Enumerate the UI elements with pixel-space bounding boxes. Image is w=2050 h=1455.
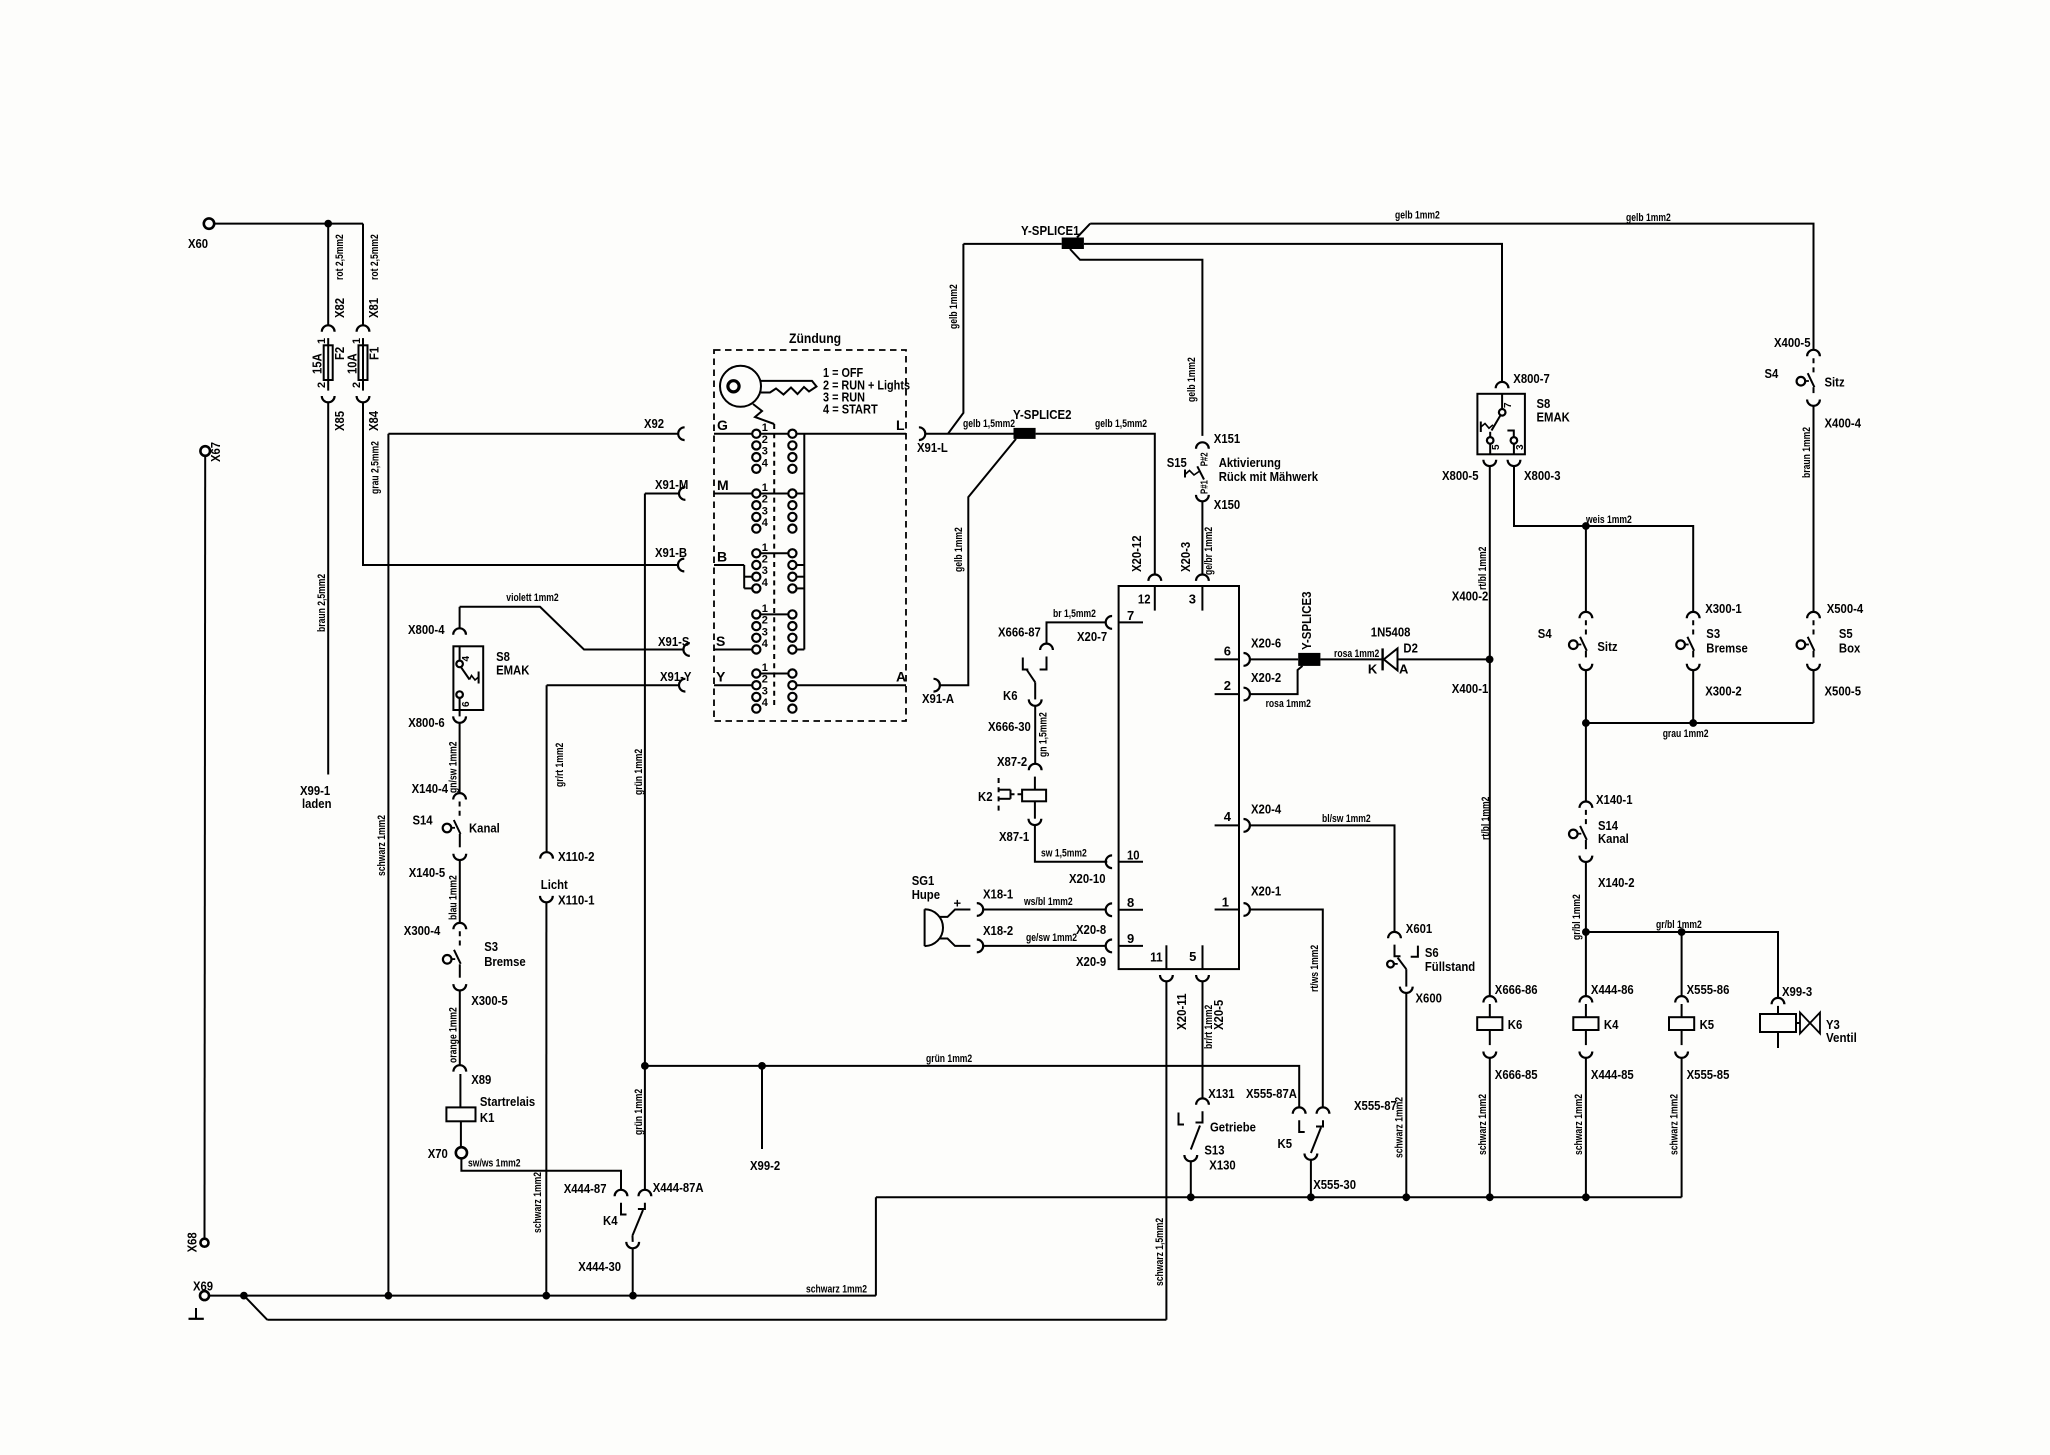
wire through fuse F1 [362,338,364,391]
svg-text:X400-5: X400-5 [1774,335,1811,350]
svg-text:bl/sw 1mm2: bl/sw 1mm2 [1322,813,1371,825]
terminal X69 [200,1291,209,1300]
svg-text:1: 1 [762,662,768,674]
relay contact K6 [1040,657,1047,670]
svg-text:X800-4: X800-4 [408,622,445,637]
wire B right stub 2 [797,564,805,566]
svg-text:gelb 1mm2: gelb 1mm2 [1186,357,1198,402]
connector X85 [322,396,335,402]
svg-text:EMAK: EMAK [1537,410,1571,425]
connector X20-8 [1106,903,1112,916]
svg-text:X60: X60 [188,236,208,251]
svg-text:K4: K4 [1604,1017,1619,1032]
svg-text:X85: X85 [332,411,347,431]
connector X444-87 [615,1190,628,1196]
junction gr/bl K4 [1582,928,1590,936]
wire grau to X140-1 [1585,723,1587,802]
svg-text:gelb 1mm2: gelb 1mm2 [1395,210,1440,222]
wire B right stub 4 [797,587,805,589]
svg-text:X555-85: X555-85 [1687,1067,1730,1082]
svg-text:S5: S5 [1839,626,1853,641]
wire coil K6 down [1489,1030,1491,1045]
svg-text:2: 2 [762,674,768,686]
relay contact K5 [1299,1120,1305,1132]
wire X130 to rail [1190,1161,1192,1197]
connector X20-9 [1106,940,1112,953]
wire coil K4 down [1585,1030,1587,1045]
svg-text:rot 2,5mm2: rot 2,5mm2 [369,234,381,280]
svg-text:2: 2 [351,382,363,388]
connector X800-5 [1483,460,1496,466]
connector X140-2 [1580,856,1593,862]
svg-text:schwarz 1mm2: schwarz 1mm2 [1669,1094,1681,1155]
svg-text:7: 7 [1127,608,1134,623]
wire S14 to X140-2 [1585,840,1587,849]
connector X91-B [678,559,684,572]
svg-text:P#1: P#1 [1200,480,1211,494]
connector X20-1 [1244,903,1250,916]
svg-text:G: G [717,417,728,433]
svg-text:gn/sw 1mm2: gn/sw 1mm2 [448,742,460,794]
relay coil K5 [1669,1017,1694,1030]
junction diode rt/bl [1486,656,1494,664]
svg-text:braun 1mm2: braun 1mm2 [1801,427,1813,478]
svg-text:12: 12 [1138,592,1151,607]
junction weis S4 [1582,522,1590,530]
wire X555-85 to rail [1681,1058,1683,1197]
svg-text:X140-2: X140-2 [1598,875,1635,890]
svg-text:X20-10: X20-10 [1069,871,1106,886]
svg-text:4: 4 [762,517,769,529]
wire X20-6 to splice [1250,658,1298,660]
svg-text:rosa 1mm2: rosa 1mm2 [1266,698,1311,710]
wire K4 to X444-30 [632,1236,634,1242]
svg-text:6: 6 [1224,644,1231,659]
relay coil K6 [1477,1017,1502,1030]
wire X300-2 down [1692,670,1694,723]
wire gr/bl down [1585,862,1587,932]
wire rail diagonal [244,1296,267,1320]
svg-text:Ventil: Ventil [1826,1030,1857,1045]
svg-text:X99-3: X99-3 [1782,984,1812,999]
svg-text:schwarz 1,5mm2: schwarz 1,5mm2 [1154,1218,1166,1286]
wire violett 1mm2 [460,607,684,650]
S8 left internals [459,646,461,660]
wire row B entry [714,564,744,566]
solenoid Y3 [1760,1014,1796,1032]
connector X140-4 [453,793,466,799]
svg-text:2: 2 [762,615,768,627]
svg-text:10A: 10A [345,353,360,374]
wire Y-SPLICE1 left [963,243,1061,245]
connector X444-87A [639,1190,652,1196]
wire X555-30 to rail [1310,1160,1312,1197]
svg-text:X500-4: X500-4 [1827,601,1864,616]
svg-text:rt/bl 1mm2: rt/bl 1mm2 [1477,547,1489,590]
ignition switch box Zündung [714,350,906,721]
connector X131 [1196,1098,1209,1104]
svg-text:4: 4 [762,457,769,469]
junction grau S4 [1582,719,1590,727]
connector X91-A [934,679,940,692]
wire gelb riser to Y-SPLICE1 [948,244,963,434]
svg-text:X500-5: X500-5 [1825,684,1862,699]
svg-text:grün 1mm2: grün 1mm2 [926,1053,972,1065]
wire X444-85 to rail [1585,1058,1587,1197]
svg-text:X666-87: X666-87 [998,625,1041,640]
wire rot 2,5mm2 to X82 [327,224,329,326]
svg-text:X400-2: X400-2 [1452,589,1489,604]
svg-text:schwarz 1mm2: schwarz 1mm2 [1573,1094,1585,1155]
svg-text:X800-3: X800-3 [1524,468,1561,483]
wire gn 1,5mm2 [1034,706,1036,764]
svg-text:4: 4 [1224,809,1232,824]
svg-text:Y: Y [716,669,726,685]
svg-text:S13: S13 [1204,1143,1224,1158]
svg-text:S3: S3 [1706,626,1720,641]
junction K4 rail [1582,1193,1590,1201]
svg-text:Zündung: Zündung [789,330,841,346]
svg-text:X666-86: X666-86 [1495,982,1538,997]
svg-text:X18-1: X18-1 [983,887,1013,902]
svg-text:S6: S6 [1425,945,1439,960]
svg-text:X300-1: X300-1 [1705,601,1742,616]
svg-text:4: 4 [762,577,769,589]
wire horn plus [939,910,970,917]
fuse F2 [324,345,333,380]
connector X87-2 [1029,764,1042,770]
connector X555-87 [1317,1107,1330,1113]
svg-text:X110-1: X110-1 [558,893,595,908]
relay coil K2 [1022,790,1046,802]
connector X400-1 [1580,664,1593,670]
connector X600 [1400,987,1413,993]
connector X666-30 [1029,699,1042,705]
connector X20-11 [1160,975,1173,981]
svg-text:X400-4: X400-4 [1825,416,1862,431]
svg-text:X800-5: X800-5 [1442,468,1479,483]
svg-text:P#2: P#2 [1200,452,1211,466]
connector X150 [1196,495,1209,501]
wire weis to X400-2 [1585,526,1587,612]
svg-text:X20-6: X20-6 [1251,636,1281,651]
svg-text:X800-7: X800-7 [1513,371,1550,386]
wire gelb to X20-12 [1036,434,1155,575]
svg-text:Licht: Licht [541,877,569,892]
wire braun 2,5mm2 to X99-1 [327,402,329,774]
svg-text:grün 1mm2: grün 1mm2 [633,749,645,795]
wire gr/rt 1mm2 [546,685,548,852]
svg-text:X67: X67 [208,442,223,462]
wire Y-SPLICE1 top diagonal [1077,224,1090,238]
splice Y-SPLICE1 [1062,238,1084,250]
switch S14 right [1585,810,1587,827]
switch S14 left [459,802,461,819]
svg-text:1: 1 [316,338,328,344]
svg-text:X601: X601 [1406,921,1432,936]
junction gruen branch [641,1062,649,1070]
svg-text:schwarz 1mm2: schwarz 1mm2 [1477,1094,1489,1155]
svg-text:1: 1 [762,422,768,434]
wire S6 to X600 [1405,969,1407,986]
connector X20-2 [1244,688,1250,701]
svg-text:gelb 1,5mm2: gelb 1,5mm2 [963,418,1015,430]
svg-text:sw 1,5mm2: sw 1,5mm2 [1041,848,1087,860]
svg-text:schwarz 1mm2: schwarz 1mm2 [376,815,388,876]
svg-text:11: 11 [1150,949,1163,964]
connector X92 [678,427,684,440]
svg-text:X20-4: X20-4 [1251,802,1282,817]
svg-text:X300-5: X300-5 [471,993,508,1008]
wire X99-2 stub [761,1066,763,1149]
horn SG1 symbol [925,909,943,946]
connector X300-1 [1687,612,1700,618]
wire X87-2 to K2 [1034,777,1036,790]
wire gruen horizontal [645,1066,1299,1108]
connector X300-4 [453,923,466,929]
svg-text:orange 1mm2: orange 1mm2 [448,1007,460,1063]
diode D2 1N5408 [1381,648,1383,670]
junction schwarz Licht line [542,1292,550,1300]
wire coil K5 down [1681,1030,1683,1045]
svg-text:grau 2,5mm2: grau 2,5mm2 [370,441,382,494]
connector X601 [1388,932,1401,938]
svg-text:X20-8: X20-8 [1076,922,1106,937]
wire X67 to X68 [204,456,207,1239]
svg-text:K4: K4 [603,1213,618,1228]
wire ge/br 1mm2 [1201,501,1203,574]
wire bl/sw 1mm2 [1250,825,1395,932]
wire row M [714,493,804,495]
svg-text:1: 1 [762,482,768,494]
junction grau S3 [1689,719,1697,727]
svg-text:gelb 1,5mm2: gelb 1,5mm2 [1095,418,1147,430]
wire grau 1mm2 bus [1586,722,1814,724]
connector X555-85 [1675,1052,1688,1058]
splice Y-SPLICE2 [1014,428,1036,439]
svg-text:K2: K2 [978,789,993,804]
svg-text:A: A [1399,661,1409,676]
wire grau 2,5mm2 to X91-B [363,402,678,565]
svg-text:4: 4 [762,638,769,650]
svg-text:schwarz 1mm2: schwarz 1mm2 [532,1172,544,1233]
wire sw/ws 1mm2 [461,1158,621,1189]
svg-text:X444-87A: X444-87A [653,1180,704,1195]
svg-text:braun 2,5mm2: braun 2,5mm2 [316,574,328,632]
svg-text:3: 3 [762,505,768,517]
wire K6 to X666-30 [1034,682,1036,699]
svg-text:X300-2: X300-2 [1705,684,1742,699]
junction gr/bl K5 [1678,928,1686,936]
svg-text:8: 8 [1127,895,1134,910]
wire to X555-86 [1681,932,1683,996]
terminal X60 [204,218,214,228]
svg-text:S4: S4 [1765,366,1779,381]
svg-text:EMAK: EMAK [496,663,530,678]
wire rail riser [875,1197,877,1295]
svg-text:2: 2 [316,382,328,388]
wire blau 1mm2 [459,860,461,923]
switch S4 mid [1585,620,1587,637]
svg-text:Getriebe: Getriebe [1210,1120,1256,1135]
svg-text:K6: K6 [1508,1017,1523,1032]
svg-text:X140-5: X140-5 [409,865,446,880]
wire X60 feed [214,223,363,225]
svg-text:rt/bl 1mm2: rt/bl 1mm2 [1480,797,1492,840]
svg-text:Bremse: Bremse [484,954,526,969]
wire lower ground rail [267,1319,1166,1321]
wire row S entry [714,649,752,651]
svg-text:X92: X92 [644,416,664,431]
svg-text:X555-30: X555-30 [1313,1177,1356,1192]
svg-text:gn 1,5mm2: gn 1,5mm2 [1038,712,1050,757]
wire B row1 bridge [761,552,789,554]
junction X444-30 line [629,1292,637,1300]
wire mid ground rail [876,1196,1682,1198]
switch S13 [1196,1111,1203,1122]
relay coil K4 [1573,1017,1598,1030]
svg-text:X300-4: X300-4 [404,923,441,938]
svg-text:X91-M: X91-M [655,477,688,492]
svg-text:X130: X130 [1209,1158,1235,1173]
svg-text:gelb 1mm2: gelb 1mm2 [1626,212,1671,224]
connector X140-1 [1580,802,1593,808]
wire schwarz S6 [1405,993,1407,1197]
svg-text:4 = START: 4 = START [823,403,878,417]
svg-text:Kanal: Kanal [469,821,500,836]
connector X91-L [919,427,925,440]
junction X555-30 rail [1307,1193,1315,1201]
junction rail to rail2 [240,1292,248,1300]
svg-text:X140-4: X140-4 [412,781,449,796]
wire to coil K6 [1489,1004,1491,1017]
connector X91-M [679,487,685,500]
connector X84 [357,396,370,402]
mechanical link dashed [773,424,775,705]
connector X444-85 [1580,1052,1593,1058]
junction K6 rail [1486,1193,1494,1201]
svg-text:K5: K5 [1700,1017,1715,1032]
svg-text:6: 6 [461,701,472,707]
svg-text:Sitz: Sitz [1597,639,1618,654]
wire X800-4 up [459,607,461,629]
ground symbol [195,1308,197,1319]
junction X99-2 [758,1062,766,1070]
svg-text:gr/bl 1mm2: gr/bl 1mm2 [1571,894,1583,940]
svg-text:br/rt 1mm2: br/rt 1mm2 [1203,1005,1215,1049]
svg-text:3: 3 [762,685,768,697]
connector X666-87 [1040,644,1053,650]
connector X151 [1196,442,1209,448]
switch S3 left [459,931,461,948]
svg-text:3: 3 [762,446,768,458]
svg-text:X151: X151 [1214,431,1240,446]
wire gn/sw 1mm2 [459,723,461,793]
connector X110-2 [540,852,553,858]
svg-text:2: 2 [762,494,768,506]
wire ge/sw 1mm2 [983,945,1105,947]
svg-text:Y-SPLICE3: Y-SPLICE3 [1299,592,1314,651]
svg-text:laden: laden [302,796,332,811]
svg-text:grau 1mm2: grau 1mm2 [1663,728,1709,740]
connector X800-4 [453,628,466,634]
connector X300-2 [1687,664,1700,670]
svg-text:X91-Y: X91-Y [660,669,692,684]
svg-text:1: 1 [762,603,768,615]
wire X91-Y harness [547,684,679,686]
switch S5 [1813,620,1815,637]
svg-text:rt/ws 1mm2: rt/ws 1mm2 [1309,945,1321,992]
svg-text:X444-85: X444-85 [1591,1067,1634,1082]
wire contact bus [803,434,805,650]
fuse F1 [359,345,368,380]
relay contact K4 [621,1203,627,1215]
svg-text:S14: S14 [413,813,434,828]
connector X555-30 [1305,1154,1318,1160]
svg-text:X600: X600 [1416,991,1442,1006]
wire br 1,5mm2 [1047,622,1106,643]
wire ws/bl 1mm2 [983,909,1105,911]
svg-text:5: 5 [1189,949,1196,964]
svg-text:X99-2: X99-2 [750,1158,780,1173]
svg-text:7: 7 [1503,402,1514,408]
switch S15 [1197,466,1204,479]
connector X82 [322,325,335,331]
wire S3 to X300-5 [459,964,461,977]
svg-text:X20-11: X20-11 [1174,994,1189,1031]
relay coil K1 [446,1107,475,1121]
svg-text:3: 3 [1189,592,1196,607]
connector block X20 [1119,586,1239,969]
connector X800-6 [453,716,466,722]
svg-text:violett 1mm2: violett 1mm2 [506,592,558,604]
svg-text:X400-1: X400-1 [1452,681,1489,696]
wire B left link [743,565,745,588]
svg-text:gr/rt 1mm2: gr/rt 1mm2 [554,743,566,787]
svg-text:X150: X150 [1214,497,1240,512]
wire row G-L [714,433,906,435]
connector X18-1 [977,903,983,916]
connector X800-3 [1508,460,1521,466]
wire through fuse F2 [327,338,329,391]
svg-text:3: 3 [1515,444,1526,450]
svg-text:Rück mit Mähwerk: Rück mit Mähwerk [1219,469,1319,484]
svg-text:Sitz: Sitz [1825,375,1846,390]
connector X110-1 [540,896,553,902]
wire horn minus [939,939,970,946]
key mechanical link [753,404,774,424]
svg-text:X91-A: X91-A [922,691,955,706]
svg-text:X110-2: X110-2 [558,849,595,864]
wire row Y entry [714,684,752,686]
connector X500-4 [1807,612,1820,618]
svg-text:X20-7: X20-7 [1077,629,1107,644]
svg-text:2: 2 [762,434,768,446]
connector X18-2 [977,940,983,953]
svg-text:10: 10 [1127,848,1140,863]
wire S right stub 4 [797,649,805,651]
connector X20-12 [1148,575,1161,581]
svg-text:X87-2: X87-2 [997,754,1027,769]
wire gr/bl 1mm2 horizontal [1586,932,1778,998]
terminal X70 [456,1147,467,1158]
wire S3 to X300-2 [1692,651,1694,658]
svg-text:K1: K1 [480,1110,495,1125]
svg-text:S4: S4 [1538,626,1552,641]
wire B link stub 3 [744,576,752,578]
svg-text:X18-2: X18-2 [983,923,1013,938]
connector X400-5 [1807,350,1820,356]
